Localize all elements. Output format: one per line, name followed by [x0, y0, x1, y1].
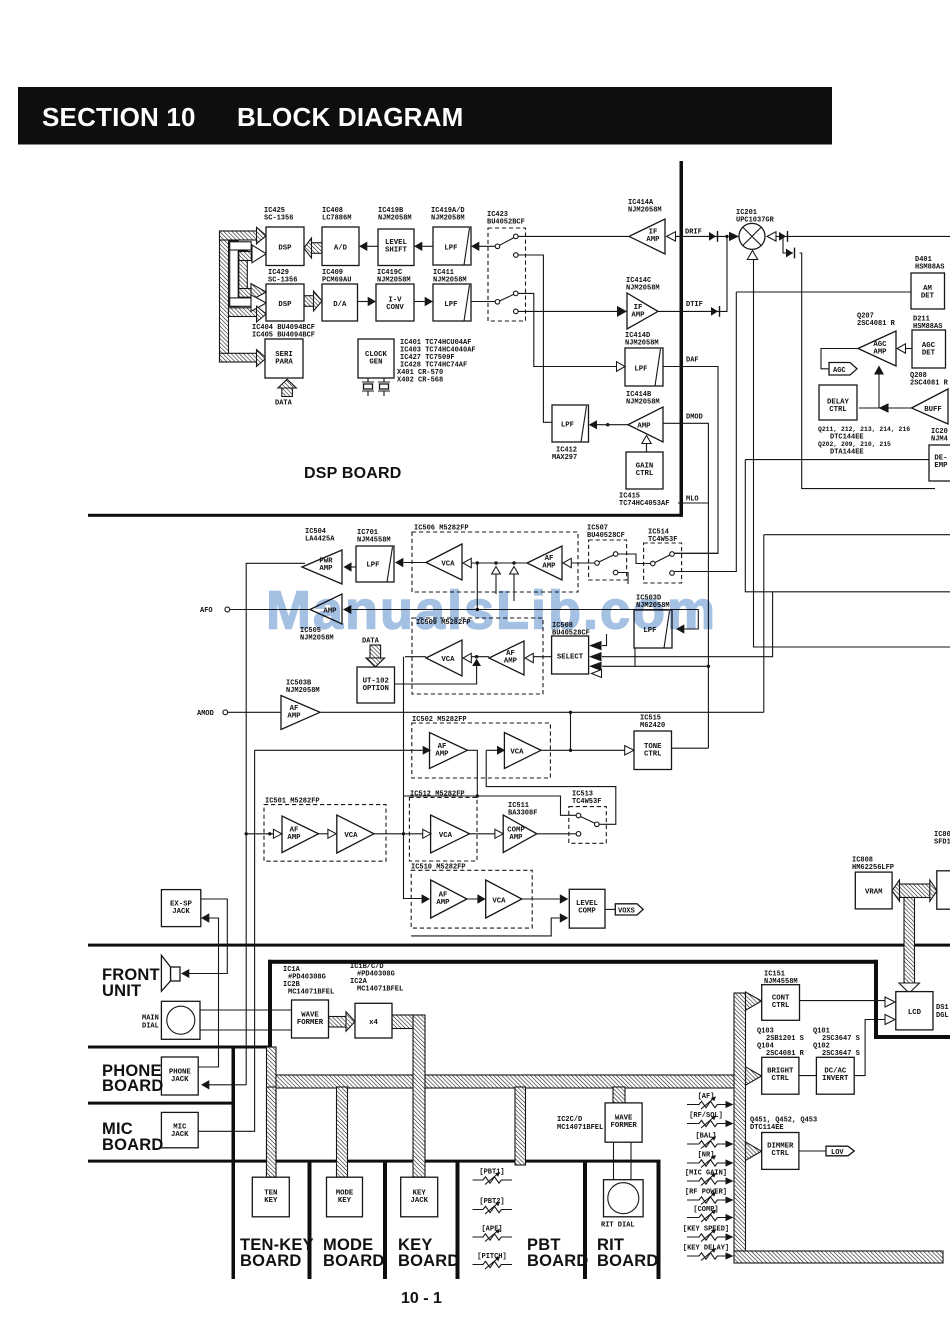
dsp bus outer hatched band	[220, 231, 229, 362]
svg-text:NJM2058M: NJM2058M	[628, 207, 662, 215]
svg-text:COMP: COMP	[578, 908, 596, 916]
arrow into VCA1	[463, 558, 471, 567]
svg-text:RIT DIAL: RIT DIAL	[601, 1222, 635, 1230]
wire DE-EMP line	[745, 459, 929, 461]
wire connector to AGC loop vertical	[800, 253, 936, 489]
svg-text:NJM2058M: NJM2058M	[377, 277, 411, 285]
x4 IC1B/C/D	[355, 1003, 392, 1038]
svg-text:DTA144EE: DTA144EE	[830, 449, 864, 457]
wire phone jack arrow	[209, 1084, 246, 1086]
arrow into AF AMP row3	[525, 653, 533, 662]
svg-text:LC7886M: LC7886M	[322, 215, 351, 223]
svg-text:[KEY SPEED]: [KEY SPEED]	[683, 1226, 729, 1234]
pot [PBT2]	[473, 1198, 513, 1214]
svg-text:LPF: LPF	[444, 301, 457, 309]
right vertical hatched bus	[734, 993, 746, 1251]
svg-text:MC14071BFEL: MC14071BFEL	[357, 986, 403, 994]
wire AM DET line	[736, 291, 911, 293]
svg-text:TC4W53F: TC4W53F	[572, 798, 601, 806]
svg-text:KEY: KEY	[338, 1197, 352, 1205]
svg-text:LOV: LOV	[831, 1149, 844, 1157]
TEN KEY	[252, 1177, 289, 1217]
svg-text:TC74HC4053AF: TC74HC4053AF	[619, 500, 669, 508]
LEVEL SHIFT IC419B	[378, 229, 414, 266]
AF AMP1	[527, 546, 562, 580]
hatched drop to TEN KEY	[267, 1087, 277, 1177]
hatched drop x4 to KEY JACK	[413, 1015, 425, 1177]
svg-text:UNIT: UNIT	[102, 982, 141, 1000]
wire TONE CTRL output	[672, 747, 709, 749]
AF AMP row4	[430, 733, 468, 769]
PWR AMP IC504	[302, 550, 342, 584]
wire AMOD line up at 763	[763, 535, 765, 713]
VRAM double arrow shaft	[898, 884, 931, 898]
arrow into VCA row3	[463, 653, 471, 662]
pot [RF POWER]	[685, 1189, 734, 1205]
hatched arrow into BRIGHT CTRL	[746, 1067, 762, 1085]
connector on DTIF line	[711, 307, 718, 316]
board separator ten-key left	[232, 1046, 236, 1279]
open arrow into LPF D	[617, 362, 626, 372]
arrow into AF AMP IC510	[422, 894, 430, 903]
AFO port	[225, 607, 230, 612]
svg-text:VOXS: VOXS	[618, 907, 635, 915]
svg-text:AMP: AMP	[646, 236, 660, 244]
wire ctrl vertical b	[495, 574, 497, 594]
thick border center section top	[268, 960, 878, 964]
arrow into VCA row4	[497, 746, 505, 755]
svg-text:BOARD: BOARD	[527, 1252, 589, 1270]
svg-text:D/A: D/A	[333, 301, 347, 309]
D/A IC409	[322, 284, 358, 321]
svg-text:VCA: VCA	[441, 561, 455, 569]
svg-text:x4: x4	[369, 1019, 378, 1027]
ctrl open arrow b	[492, 567, 501, 575]
svg-text:GEN: GEN	[369, 359, 382, 367]
arrow I-V to LPF2	[425, 297, 433, 306]
A/D IC408	[322, 227, 359, 266]
AF AMP IC503B	[281, 696, 320, 730]
arrow into A/D	[359, 242, 367, 251]
wire SELECT top stub	[602, 634, 607, 646]
arrow into LPF IC701	[395, 558, 403, 567]
svg-text:BU4052BCF: BU4052BCF	[487, 219, 525, 227]
wire AGC DET to AGC AMP	[905, 348, 912, 350]
bus arrowhead into DSP2 top	[251, 284, 266, 301]
svg-text:SFD1: SFD1	[934, 839, 950, 847]
hatched drop to WAVE FORMER IC2C/D	[613, 1087, 625, 1103]
CONT CTRL IC151	[762, 985, 800, 1021]
svg-text:X402 CR-568: X402 CR-568	[397, 377, 443, 385]
DE-EMP box	[929, 445, 950, 481]
bus arrowhead into DSP2 mid (white)	[251, 295, 266, 312]
BUFF Q208	[912, 389, 949, 424]
wire row4 AF AMP out corner down	[467, 750, 477, 796]
thick border right bottom	[874, 1035, 950, 1039]
wire DAF from LPF IC414D to IC514	[663, 367, 718, 554]
VCA IC510	[486, 880, 522, 918]
DATA arrow up into SERI PARA	[282, 388, 293, 397]
wire PWR AMP from LPF IC701	[352, 566, 357, 568]
svg-text:AMP: AMP	[287, 834, 301, 842]
hatched drop to PBT board	[515, 1087, 526, 1165]
svg-text:HSM88AS: HSM88AS	[915, 264, 944, 272]
svg-text:FORMER: FORMER	[297, 1019, 324, 1027]
I-V CONV IC419C	[376, 284, 414, 321]
bus arrowhead into SERI PARA	[257, 350, 267, 367]
svg-text:[RF POWER]: [RF POWER]	[685, 1189, 727, 1197]
wire IC423 sw2 throw1 to LPF IC414D	[518, 293, 617, 366]
row3 dashed box IC509	[412, 618, 543, 694]
IC423 switch2	[500, 294, 515, 301]
wire DIMMER to LOV	[799, 1150, 826, 1152]
open arrow into IF AMP A	[667, 232, 676, 241]
arrow into AF AMP IC501	[273, 829, 281, 838]
wire DTIF connector to mixer line	[658, 236, 727, 311]
keyboard main horizontal hatched bus	[267, 1075, 746, 1088]
svg-text:MAIN: MAIN	[142, 1015, 159, 1023]
arrows into LEVEL COMP	[560, 894, 568, 903]
svg-text:2SC4081 R: 2SC4081 R	[766, 1050, 805, 1058]
wire MAIN DIAL to WAVE FORMER a	[200, 1009, 292, 1011]
svg-text:JACK: JACK	[410, 1197, 428, 1205]
svg-text:JACK: JACK	[171, 1131, 189, 1139]
bus arrow DSP2 to D/A	[304, 296, 314, 307]
hatched arrow WAVE FORMER to x4	[329, 1017, 347, 1028]
svg-text:MC14071BFEL: MC14071BFEL	[557, 1124, 603, 1132]
MIC JACK	[161, 1112, 198, 1147]
WAVE FORMER IC2C/D	[605, 1103, 642, 1142]
wire LEVEL COMP to VOXS	[605, 908, 615, 910]
board separator pbt left	[456, 1160, 460, 1279]
pot [KEY SPEED]	[683, 1226, 734, 1242]
svg-text:NJM2058M: NJM2058M	[433, 277, 467, 285]
IC514 switch	[655, 555, 670, 563]
IF AMP IC414C	[627, 293, 658, 329]
wire WF2 to RIT DIAL a	[613, 1142, 615, 1180]
wire GAIN CTRL to AMP IC414B	[646, 444, 648, 453]
svg-text:BOARD: BOARD	[323, 1252, 385, 1270]
wire AMP IC414B output to LPF IC412	[597, 424, 628, 426]
svg-text:SECTION 10: SECTION 10	[42, 102, 196, 132]
pot [AF]	[687, 1093, 734, 1109]
svg-text:2SC4081 R: 2SC4081 R	[857, 320, 896, 328]
arrow into AMP IC505	[343, 605, 351, 614]
svg-text:BLOCK DIAGRAM: BLOCK DIAGRAM	[237, 102, 463, 132]
svg-text:SC-1356: SC-1356	[268, 277, 297, 285]
svg-text:DS1: DS1	[936, 1004, 949, 1012]
mixer IC201	[739, 223, 765, 249]
arrow D/A to I-V	[368, 297, 376, 306]
LPF IC411	[433, 284, 471, 321]
wire LEVEL COMP lower input	[411, 918, 559, 936]
MODE KEY	[327, 1177, 363, 1217]
wire DE-EMP down to 592 line to edge	[745, 460, 950, 592]
node ctrl c	[512, 561, 515, 564]
wire IC423 sw2 throw2 DTIF to IF AMP C	[518, 310, 617, 312]
pot [COMP]	[687, 1206, 734, 1222]
svg-text:PARA: PARA	[275, 359, 293, 367]
wire IC501 VCA out to IC512	[374, 833, 423, 835]
arrow into PWR AMP	[344, 562, 352, 571]
AF AMP row3	[489, 641, 524, 675]
IC423 switch1	[500, 238, 515, 246]
svg-text:DSP BOARD: DSP BOARD	[304, 465, 402, 482]
RIT DIAL	[604, 1180, 644, 1217]
svg-text:VRAM: VRAM	[865, 889, 883, 897]
svg-text:[RF/SQL]: [RF/SQL]	[689, 1112, 723, 1120]
svg-text:BUFF: BUFF	[924, 406, 942, 414]
hatched drop to MODE KEY	[337, 1087, 348, 1177]
bottom horizontal hatched bus	[734, 1251, 943, 1263]
arrow into PHONE JACK	[201, 1080, 209, 1089]
wire IC512 VCA out to COMP AMP	[470, 833, 495, 835]
connector on branch	[786, 249, 793, 258]
arrow into AF AMP row4	[423, 746, 431, 755]
wire UT-102 output	[394, 666, 476, 684]
svg-text:DSP: DSP	[278, 245, 292, 253]
hatched arm x4 output	[392, 1015, 414, 1029]
svg-text:2SC3647 S: 2SC3647 S	[822, 1050, 860, 1058]
IC503D LPF	[634, 610, 672, 648]
LPF IC412	[552, 405, 589, 442]
svg-text:FORMER: FORMER	[610, 1122, 637, 1130]
svg-text:DTC114EE: DTC114EE	[750, 1124, 784, 1132]
wire row4 VCA out to TONE	[541, 749, 625, 751]
wire ctrl vertical a	[476, 563, 478, 610]
DIMMER CTRL	[762, 1133, 799, 1170]
UT-102 OPTION box	[357, 667, 395, 703]
svg-text:AMP: AMP	[436, 899, 450, 907]
wire BUFF to DELAY CTRL	[859, 407, 912, 409]
svg-text:DMOD: DMOD	[686, 414, 703, 422]
DATA arrow down into UT-102	[370, 645, 381, 658]
wire IC510 row	[467, 898, 560, 900]
svg-text:UPC1037GR: UPC1037GR	[736, 217, 775, 225]
IC513 switch	[581, 817, 595, 824]
node fb	[476, 794, 479, 797]
svg-text:M62420: M62420	[640, 722, 665, 730]
bus arrow A/D to DSP1	[311, 243, 322, 254]
svg-text:NJM4558M: NJM4558M	[764, 978, 798, 986]
AMP IC505	[310, 594, 342, 624]
wire EX-SP arrow to phone jack	[198, 918, 218, 1067]
svg-text:AFO: AFO	[200, 607, 213, 615]
open arrow into TONE CTRL	[625, 746, 634, 755]
svg-text:CTRL: CTRL	[644, 751, 662, 759]
wire LPF2 to IC423 sw2	[471, 301, 495, 303]
pot [MIC GAIN]	[685, 1170, 734, 1186]
arrow into LPF1	[471, 242, 479, 251]
IC506 dashed box	[412, 532, 578, 592]
svg-text:[PBT2]: [PBT2]	[479, 1198, 504, 1206]
svg-text:VCA: VCA	[344, 832, 358, 840]
bus arrowhead into DSP1 upper	[257, 227, 267, 244]
svg-text:HM62256LFP: HM62256LFP	[852, 864, 894, 872]
wire mixer output right to edge	[776, 235, 950, 237]
svg-text:10 - 1: 10 - 1	[401, 1290, 442, 1307]
wire row3 AF AMP to SELECT	[534, 656, 552, 658]
svg-text:NJM2058M: NJM2058M	[431, 215, 465, 223]
arrow into speaker	[181, 969, 189, 978]
IC510 dashed box	[411, 870, 532, 928]
svg-text:BOARD: BOARD	[102, 1077, 164, 1095]
svg-text:MAX297: MAX297	[552, 454, 577, 462]
svg-text:NJM2058M: NJM2058M	[286, 687, 320, 695]
LOV pentagon	[826, 1146, 854, 1156]
VCA IC512	[431, 815, 470, 853]
dsp bus inner hatched band	[239, 251, 248, 297]
svg-text:IC512 M5282FP: IC512 M5282FP	[410, 791, 465, 799]
svg-text:CTRL: CTRL	[829, 406, 847, 414]
svg-text:LCD: LCD	[908, 1009, 922, 1017]
node select bottom	[707, 665, 710, 668]
wire EX-SP to speaker	[189, 899, 227, 974]
EX-SP JACK	[161, 890, 200, 927]
svg-text:INVERT: INVERT	[822, 1075, 849, 1083]
wire up into AGC AMP	[878, 374, 880, 408]
wire LPF1 to IC423	[471, 245, 495, 247]
board separator rit right	[657, 1160, 661, 1279]
divider mic board top	[88, 1102, 234, 1105]
TONE CTRL IC515	[634, 731, 672, 770]
wire AM DET down to IC514 throw	[674, 292, 736, 572]
crystal X401	[362, 378, 374, 396]
wire mixer LO vertical to edge line	[754, 260, 950, 647]
IC512 dashed box	[409, 797, 477, 861]
svg-text:VCA: VCA	[441, 656, 455, 664]
dsp bus middle white band	[230, 241, 239, 307]
LCD DS1	[896, 992, 933, 1030]
svg-text:PCM69AU: PCM69AU	[322, 277, 351, 285]
wire AGC AMP output loop to AGC tag	[821, 349, 858, 369]
wire PWR AMP output down left column	[246, 563, 305, 1085]
svg-text:NJM2058M: NJM2058M	[625, 340, 659, 348]
IC502 dashed box	[412, 723, 551, 778]
wire DC/AC to LCD	[854, 1020, 885, 1076]
wire mic column down	[198, 750, 254, 1131]
wire IC501 between	[319, 833, 329, 835]
node x403 at 834	[402, 832, 405, 835]
wire row3 VCA down to IC510	[404, 657, 422, 899]
bus arrowhead into DSP1 lower (white)	[252, 245, 266, 263]
dsp bus middle top arm	[230, 242, 252, 250]
WAVE FORMER IC1A	[292, 1000, 329, 1038]
svg-text:Q211, 212, 213, 214, 216: Q211, 212, 213, 214, 216	[818, 426, 910, 433]
arrow into IF AMP C	[617, 306, 627, 317]
svg-text:JACK: JACK	[171, 1076, 189, 1084]
arrow into COMP AMP	[495, 829, 503, 838]
arrow into LPF IC412	[589, 420, 597, 429]
arrow into AF AMP1	[563, 558, 571, 567]
svg-text:SELECT: SELECT	[557, 654, 584, 662]
AF AMP IC501	[282, 816, 319, 853]
dsp bus outer arm to DSP2	[229, 308, 258, 317]
svg-text:LPF: LPF	[444, 245, 457, 253]
AF AMP IC510	[431, 880, 467, 918]
wire DMOD from AMP IC414B down to select row	[663, 423, 708, 748]
svg-text:DAF: DAF	[686, 357, 699, 365]
AGC AMP Q207	[858, 331, 896, 366]
bus arrowhead into DSP2 bottom	[257, 306, 267, 322]
svg-text:DET: DET	[921, 293, 935, 301]
svg-text:DGL: DGL	[936, 1012, 949, 1020]
wire row3 between	[472, 656, 490, 658]
dsp bus inner bottom arm	[239, 289, 252, 298]
node AFO ctrl	[476, 608, 479, 611]
GAIN CTRL IC415	[626, 452, 663, 489]
wire VCA1 row	[472, 562, 528, 564]
SELECT input arrows	[589, 641, 602, 650]
arrow into EX-SP JACK	[201, 913, 209, 922]
ctrl arrow row3	[472, 659, 481, 667]
svg-text:[MIC GAIN]: [MIC GAIN]	[685, 1170, 727, 1178]
svg-text:AMP: AMP	[509, 834, 523, 842]
svg-text:AMP: AMP	[637, 423, 651, 431]
node ctrl b	[494, 561, 497, 564]
VRAM IC808	[855, 872, 892, 909]
arrow into VCA IC510	[477, 894, 485, 903]
wire IC514 bottom throw to AM det line	[674, 571, 736, 573]
divider phone board top	[88, 1046, 272, 1049]
svg-text:ManualsLib.com: ManualsLib.com	[266, 581, 717, 641]
board divider DSP bottom	[88, 514, 682, 517]
open arrow GAIN into AMP	[642, 436, 651, 444]
wire MLO stub	[678, 502, 708, 504]
svg-text:[PITCH]: [PITCH]	[477, 1253, 506, 1261]
wire IC507 throw to IC514 common	[618, 554, 650, 564]
open arrow into mixer bottom	[747, 251, 757, 260]
svg-text:CTRL: CTRL	[772, 1075, 790, 1083]
svg-text:AMP: AMP	[319, 565, 333, 573]
wire IC423 sw1 throw1 DRIF to IF AMP A	[518, 235, 629, 237]
wire WF2 to RIT DIAL b	[630, 1142, 632, 1180]
svg-text:BOARD: BOARD	[398, 1252, 460, 1270]
svg-text:DTIF: DTIF	[686, 301, 703, 309]
open arrow down into LCD	[899, 983, 920, 993]
pot [BAL]	[687, 1133, 734, 1149]
node UT up	[475, 655, 478, 658]
COMP AMP IC511	[503, 815, 537, 853]
svg-text:Q202, 209, 210, 215: Q202, 209, 210, 215	[818, 441, 891, 448]
DSP IC425	[266, 227, 304, 266]
pot [KEY DELAY]	[683, 1245, 734, 1261]
svg-text:NJM4: NJM4	[931, 436, 948, 444]
svg-text:2SC4081 R: 2SC4081 R	[910, 380, 949, 388]
svg-text:JACK: JACK	[172, 908, 190, 916]
svg-text:KEY: KEY	[264, 1197, 278, 1205]
VCA row4	[504, 733, 541, 769]
svg-text:VCA: VCA	[510, 749, 524, 757]
wire IC514 top throw to MLO	[674, 552, 718, 554]
svg-text:DIAL: DIAL	[142, 1023, 159, 1031]
node tone row	[569, 749, 572, 752]
LPF IC701	[356, 546, 394, 582]
arrow left on DELAY-BUFF wire	[879, 403, 889, 412]
thick vertical border x681	[680, 161, 684, 517]
wire row3 VCA output left	[405, 656, 426, 658]
wire AF AMP1 to IC507	[572, 562, 595, 564]
VRAM double arrow left head	[892, 880, 900, 901]
MAIN DIAL	[161, 1001, 200, 1039]
LPF IC414D	[625, 348, 663, 386]
svg-text:AMP: AMP	[631, 312, 645, 320]
hatched drop VRAM to LCD	[904, 898, 915, 984]
wire IC501 input	[246, 833, 273, 835]
wire feedback y796	[404, 796, 577, 815]
svg-text:LPF: LPF	[561, 422, 574, 430]
IC507 switch	[599, 555, 614, 562]
